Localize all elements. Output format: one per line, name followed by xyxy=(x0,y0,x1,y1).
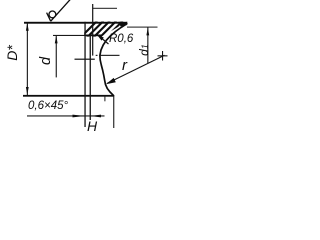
extension line top right (horizontal at y=8) xyxy=(93,8,117,9)
bore line d (thick part) xyxy=(85,35,103,37)
label H xyxy=(86,118,96,134)
label d (rotated) xyxy=(38,46,54,76)
short cross line at left face xyxy=(75,59,95,60)
H dimension line (also shelf of chamfer note) xyxy=(27,115,105,116)
left face line of part xyxy=(84,22,85,127)
extension line below arc bottom xyxy=(104,96,105,102)
label R0,6 xyxy=(109,33,133,45)
extension line from bottom right corner xyxy=(113,96,114,128)
dimension D*: vertical line with two arrows xyxy=(27,23,28,95)
dimension d1: vertical line with arrow xyxy=(147,27,148,63)
label d1 (rotated) xyxy=(137,35,151,65)
centerline (axis, dash-dot) xyxy=(96,55,120,56)
label 0,6x45 chamfer note xyxy=(28,99,68,111)
radius r leader line with arrow xyxy=(107,55,164,83)
dimension d1: extension line from tip xyxy=(127,27,158,28)
chamfer edge line xyxy=(90,35,91,120)
radius center cross xyxy=(158,55,168,56)
hatch strokes in section wedge xyxy=(80,21,129,38)
bottom face line of part xyxy=(23,95,114,97)
dimension d: vertical line with one arrow xyxy=(56,35,57,77)
top face line of part xyxy=(24,22,127,24)
solid tip of wedge (right end of section) xyxy=(119,22,128,27)
concave profile arc (radius r surface) xyxy=(100,24,127,96)
bore extension line (thin, to the left) xyxy=(53,35,85,36)
R0.6 leader line with arrow xyxy=(97,34,109,44)
bore upper extension line (vertical through section) xyxy=(92,4,93,56)
label r xyxy=(121,56,126,73)
surface finish symbol (circle + check) xyxy=(47,0,71,21)
label D* (rotated) xyxy=(4,38,20,68)
